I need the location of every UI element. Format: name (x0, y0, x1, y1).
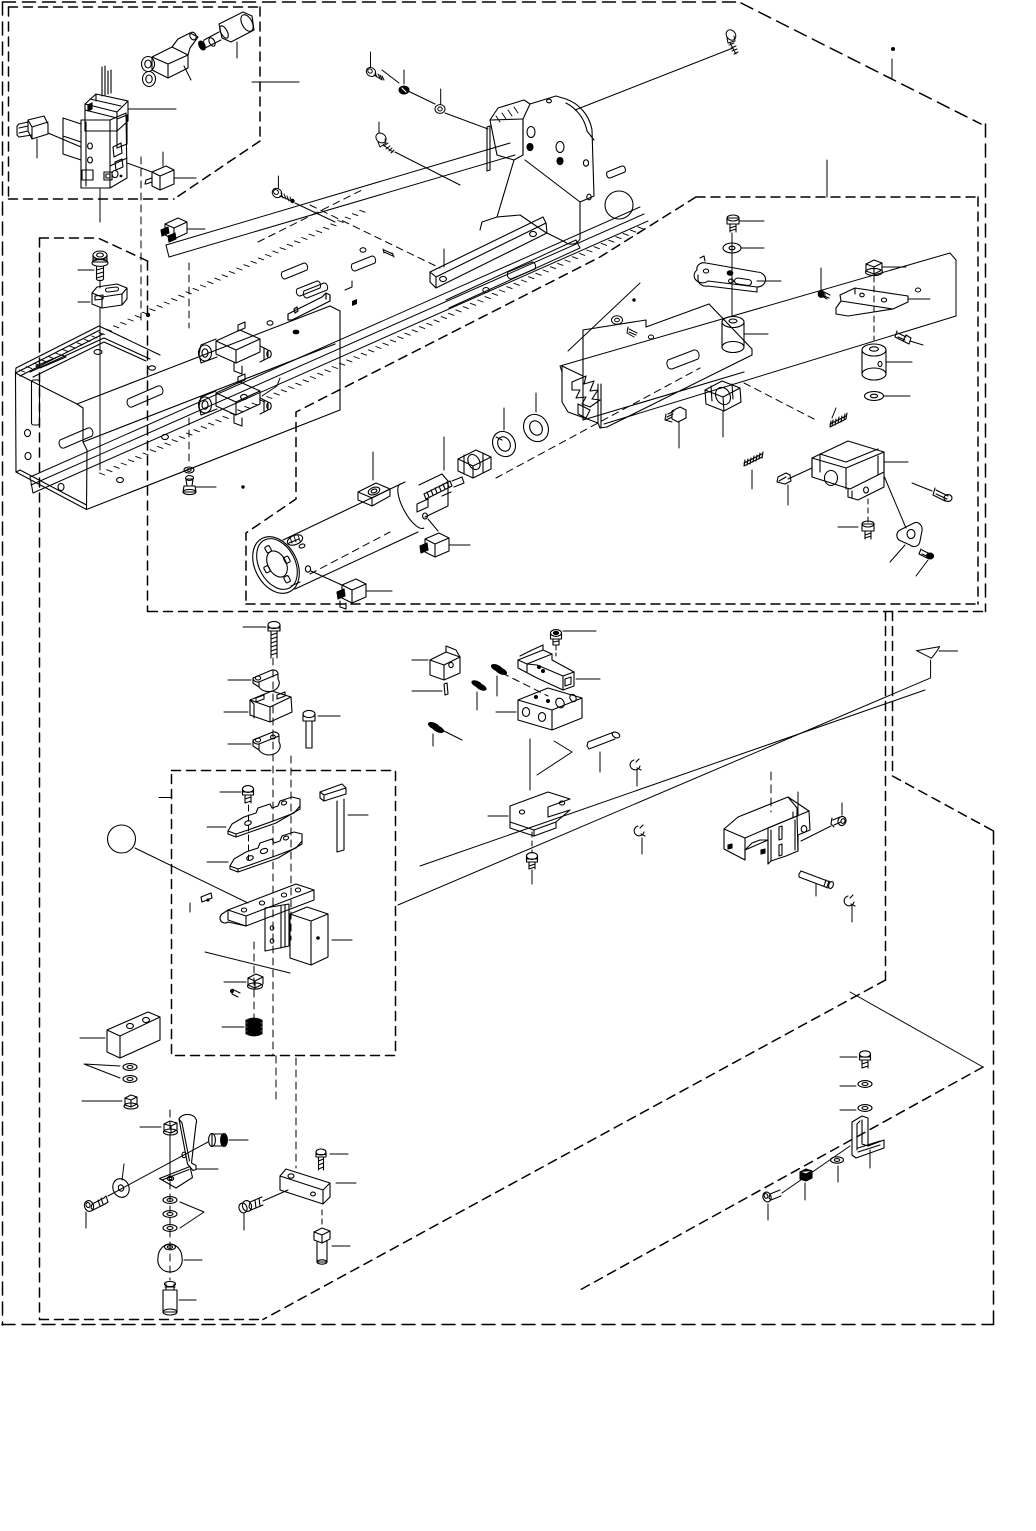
base arm hole 2 (259, 901, 264, 905)
nut bore (465, 452, 482, 471)
washer far right (612, 316, 623, 324)
rail step notch (345, 281, 352, 290)
big nut leader (722, 411, 724, 437)
spacer bottom ellipse (722, 342, 744, 353)
br washer 1 inner (862, 1083, 868, 1086)
base arm hole 4 (295, 888, 300, 892)
br screw 2 head (762, 1191, 773, 1203)
egg knob top hole inner (167, 1246, 172, 1249)
holder lower leader (205, 952, 290, 973)
second bar end (576, 240, 580, 248)
upper rail slot b (303, 283, 327, 298)
elbow fitting left (28, 116, 48, 139)
channel right end (709, 304, 752, 355)
screw right head inner (840, 818, 845, 824)
far right screw leader (912, 483, 932, 491)
long screw shaft (271, 631, 277, 658)
second bar slot (507, 262, 535, 279)
right bracket dark square b (761, 849, 765, 854)
box3 leader tick (826, 160, 828, 197)
bolt below leader (332, 1245, 350, 1247)
guide pin leader (599, 752, 601, 772)
manifold valve 2 port cylinder (199, 391, 217, 415)
br L-bracket leader (869, 1150, 871, 1168)
washer far right inner (615, 318, 620, 322)
leader fitting lower (366, 590, 392, 592)
small bolt shaft (245, 795, 251, 803)
black spring c1 (490, 662, 508, 676)
box4 leader tick (159, 797, 172, 799)
body top face hole a (94, 350, 102, 355)
small screw mid (777, 473, 786, 484)
box1 leader tick (252, 81, 299, 83)
br screw head (860, 1051, 871, 1057)
cylinder top small port (286, 533, 304, 548)
screw TR side (727, 36, 735, 43)
box1 top edge (9, 6, 261, 8)
silencer leader (236, 42, 238, 58)
plate right edge (950, 253, 956, 316)
upper rail slot a (281, 263, 307, 279)
link 2 thickness (253, 736, 280, 755)
right nut flange (866, 268, 883, 275)
washer s2 inner (167, 1213, 173, 1216)
rail fitting dark screw bottom (168, 233, 176, 242)
leader bracket box left (788, 468, 812, 479)
screw B leader (378, 122, 380, 133)
holder support hole a (270, 926, 274, 930)
angled screw leader (910, 341, 923, 345)
e-clip left leader (641, 838, 643, 854)
set screw fitting (672, 407, 686, 422)
thin strip plate mid (288, 293, 330, 320)
flag tail line (939, 650, 958, 652)
box1 corner diagonal (174, 141, 260, 199)
body hole 1 (25, 429, 31, 436)
link plate dark hole (727, 271, 733, 275)
bracket box inner wall (820, 449, 878, 475)
strip plate screw (294, 307, 298, 313)
cylinder port oval inner (371, 488, 378, 493)
boundary vertical x892 (892, 612, 894, 777)
small block tab (446, 646, 460, 657)
link 1 leader (228, 679, 251, 681)
cylinder port block (358, 483, 390, 506)
fitting left head (241, 1199, 253, 1212)
link plate left pin (700, 256, 705, 261)
roller top ellipse (862, 344, 886, 356)
body top edge hatching (19, 210, 365, 372)
long screw leader (243, 626, 266, 628)
fitting left leader (243, 1214, 245, 1230)
bottom bar block (280, 1169, 330, 1204)
tiny pin on rail (383, 249, 394, 257)
clamp plate screw dot 2 (541, 669, 545, 673)
screw above bar shaft (319, 1157, 324, 1170)
washer A2 inner (438, 107, 442, 111)
pivot arm slot (182, 1152, 186, 1158)
body front-right band inner edge (83, 344, 335, 442)
cylinder body bottom edge (295, 532, 418, 589)
manifold leader curve (262, 378, 280, 396)
boundary diagonal to lower right corner (893, 776, 994, 831)
manifold valve 1 bottom stub (234, 363, 242, 374)
lower cylinder leader (179, 1299, 196, 1301)
block leader (224, 711, 248, 713)
valve port small (115, 159, 123, 170)
spacer top bore (729, 319, 737, 323)
valve pins (102, 66, 111, 96)
knife plate 2 hole a (246, 855, 254, 861)
channel front bottom edge (583, 355, 752, 427)
egg knob (158, 1244, 182, 1272)
small screw mid leader (787, 485, 789, 505)
small dot mid right (632, 298, 635, 301)
angled screw head (903, 335, 911, 344)
upper rail bottom edge (169, 155, 515, 257)
bracket hole 5 (583, 160, 588, 166)
screw B head (374, 131, 388, 145)
column bolt head (93, 251, 107, 259)
screw right of bracket (831, 817, 841, 827)
washer w2 inner (127, 1078, 133, 1081)
washer A2 leader (440, 89, 442, 104)
base arm hole 3 (281, 893, 286, 897)
guide rod leader (348, 814, 368, 816)
black oval below strip (293, 330, 300, 335)
small bolt side (243, 789, 254, 795)
feed block hole 2 (569, 693, 578, 703)
leader from elbow cluster (184, 66, 191, 80)
spring c3 wire (442, 730, 462, 740)
axis diagonal near slide bar (310, 205, 440, 268)
bracket box flange (848, 472, 884, 500)
feed block leader left (496, 711, 516, 713)
channel back top edge (583, 304, 709, 376)
axis fitting to bar (263, 1190, 288, 1201)
rail left tip (30, 477, 33, 493)
black spring outline (246, 1020, 262, 1034)
outer border left (2, 2, 4, 1325)
black spring box4 (246, 1018, 262, 1037)
bracket box (pivot) (812, 441, 884, 489)
e-clip lower right (844, 895, 855, 906)
cylinder flange ellipse (248, 532, 305, 597)
double elbow top stub (172, 33, 198, 55)
washer s3 inner (167, 1227, 173, 1230)
small block leader (412, 659, 428, 661)
screw above dark center (553, 631, 558, 634)
rail bottom edge (33, 221, 648, 493)
feed block port left (522, 708, 529, 717)
bracket box top edges (812, 452, 884, 489)
column bolt collar (93, 255, 107, 262)
valve port square (113, 143, 122, 157)
fitting left rings (255, 1198, 260, 1208)
black dot on dashed line (146, 313, 150, 317)
axis manifold upper (188, 263, 190, 328)
upper rail left tip (166, 245, 169, 257)
balloon circle top-right (605, 191, 633, 219)
rail hole dot a (267, 321, 273, 325)
small bolt in box4 (243, 786, 254, 793)
leader screw chain top (382, 70, 488, 129)
inner top notch (40, 238, 148, 261)
solenoid valve body (81, 113, 127, 188)
spacer top ellipse (722, 317, 744, 328)
base arm (228, 884, 314, 926)
valve coil inner (85, 94, 121, 118)
screw lower-left head inner (85, 1202, 91, 1208)
spring right leader (832, 408, 836, 418)
br L-bracket inner U (857, 1120, 868, 1150)
second parallel leader (420, 690, 925, 866)
washer s3 (163, 1225, 177, 1232)
rod key flat (417, 499, 428, 512)
black spring leader (222, 1026, 244, 1028)
axis nut-spring box4 (253, 942, 255, 1018)
silencer neck (203, 32, 221, 48)
z-bracket plate (840, 288, 908, 309)
knife plate 1 hole a (244, 820, 252, 826)
z-bracket leader (908, 298, 930, 300)
knife plate 2 hole c (283, 835, 289, 840)
column bolt head inner (97, 253, 104, 257)
plate hole 2 (915, 288, 920, 292)
double elbow port ring 2 (143, 72, 156, 87)
knife axis dashed (248, 805, 250, 860)
leader vertical above rod (443, 437, 445, 470)
valve face hole 1 (88, 143, 93, 149)
small dot top right (891, 47, 895, 51)
grease fitting leader (196, 486, 216, 488)
plain washer (519, 410, 553, 446)
plate top edge (560, 253, 950, 366)
elongated block hole 2 (143, 1017, 150, 1022)
L-plate hole 1 (519, 810, 524, 814)
pivot arm leader (196, 1168, 218, 1170)
br axis line (782, 1146, 850, 1193)
pin bolt head side (303, 714, 315, 721)
bracket box side hole (825, 471, 838, 486)
small screw left of z (822, 291, 830, 299)
leader elbow to valve (48, 133, 81, 147)
body front-right long band top edge (77, 306, 330, 404)
pivot bolt shaft (865, 531, 871, 539)
knife plate 2 hole b (260, 848, 269, 855)
small block hole (449, 662, 453, 667)
clamp plate leader (576, 678, 600, 680)
holder block leader (332, 939, 352, 941)
lock washer (488, 427, 520, 460)
screw above clamp (551, 630, 562, 637)
holder block (290, 907, 328, 965)
box1 left edge (8, 7, 10, 199)
axis dash fragment lower (310, 532, 390, 574)
screw above bar (316, 1149, 326, 1155)
cylinder body top edge (283, 482, 405, 540)
small fitting below valve (152, 166, 174, 190)
link 2 hole (255, 738, 260, 742)
screw C thread (280, 193, 292, 202)
valve leader lines (100, 163, 152, 222)
bracket hole 1 (527, 127, 535, 138)
washer s1 inner (167, 1199, 173, 1202)
bushing ellipse dark (221, 1134, 228, 1147)
cylinder head cap (419, 474, 448, 517)
slide bar hole left (440, 276, 447, 281)
leader screw to bracket top (575, 48, 733, 110)
wedge solid diagonal (850, 992, 983, 1067)
cylinder port oval (367, 486, 381, 497)
cylinder flange bolt hole 1 (264, 545, 271, 553)
valve bottom bits (104, 172, 112, 180)
small dot mid left (241, 485, 244, 488)
right nut small (866, 260, 882, 274)
leader fitting right (449, 544, 470, 546)
second bar bottom edge (449, 248, 580, 308)
pin bolt leader (318, 715, 340, 717)
wedge dashed diagonal (580, 1067, 983, 1290)
long screw head side (268, 625, 280, 631)
screw lower-left (91, 1198, 105, 1210)
column bolt leader (78, 269, 94, 271)
slide bar outline (430, 217, 547, 288)
channel left face (562, 366, 607, 428)
silencer neck ring (208, 37, 217, 48)
silencer end ellipse (238, 13, 255, 34)
br washer 3 leader (837, 1166, 839, 1182)
cam screw (919, 549, 930, 558)
rail hole dot b (360, 248, 366, 252)
mid band bottom inner (246, 603, 978, 605)
box1 right edge (259, 7, 261, 141)
rail slot b (127, 386, 163, 407)
cylinder fitting lower stub (340, 601, 346, 609)
column bolt shaft (97, 266, 104, 281)
cam plate (897, 523, 922, 547)
box3 top edge (696, 196, 978, 198)
manifold valve 2 port rings (199, 397, 212, 413)
br L-bracket hatch (858, 1141, 880, 1152)
guide rod shaft (337, 799, 344, 852)
cylinder head ellipse arc (398, 484, 424, 529)
manifold valve 2 port inner (202, 401, 208, 409)
rail fitting body (165, 218, 187, 239)
cylinder flange bore (262, 547, 291, 580)
bolt below bar shaft (317, 1241, 327, 1262)
leader tick right of valve (128, 108, 176, 110)
screw lower-left head (83, 1199, 95, 1212)
bushing ellipse left (209, 1134, 216, 1147)
elongated block (107, 1012, 160, 1058)
clamp top plate (518, 650, 574, 690)
bracket box leader (884, 461, 908, 463)
column block slot front (95, 295, 103, 300)
double elbow port inner 1 (145, 60, 151, 68)
plate outline (558, 252, 958, 438)
pivot arm inner (179, 1119, 190, 1161)
holder support hole b (270, 939, 274, 943)
bottom bar hole right (311, 1192, 316, 1196)
wire block to L-plate (529, 739, 531, 790)
L-plate (510, 792, 570, 830)
body top corner clip (36, 355, 66, 368)
washer inner (729, 246, 735, 250)
set screw rings (665, 411, 674, 422)
screw B thread (383, 143, 394, 153)
manifold valve 2 bottom stub (234, 415, 242, 426)
right bracket U-notch (745, 840, 768, 850)
holder support plate strips (281, 905, 285, 948)
knife plate 2 leader (207, 861, 228, 863)
diagonal axis lower-left (108, 1142, 208, 1196)
pivot arm hole (167, 1176, 173, 1180)
bracket hole 3 (556, 142, 564, 153)
br nut (800, 1169, 812, 1181)
valve left steps (63, 118, 81, 160)
rail fitting leader (187, 228, 205, 230)
leader above plain washer (535, 393, 537, 412)
manifold washer inner (187, 469, 191, 472)
bracket box ear hole (864, 487, 869, 493)
small block with tab (430, 652, 460, 680)
right bracket right plate (768, 797, 798, 851)
black square right of strip (352, 299, 357, 306)
body band right end (330, 306, 340, 410)
screw C head (270, 186, 283, 199)
washer below roller (865, 392, 884, 401)
bottom bar leader (336, 1182, 356, 1184)
small pin dark dot (206, 898, 209, 901)
elbow left stubs (19, 122, 32, 137)
manifold valve 1 port rings (199, 345, 212, 361)
link plate (694, 263, 765, 287)
knife plate 1 hole b (281, 800, 287, 805)
small screw mid head (785, 473, 791, 484)
nut n2 flange (164, 1129, 178, 1135)
wire dogleg (537, 741, 572, 775)
clamp plate hole (565, 677, 571, 686)
spring c2 leader (476, 692, 478, 710)
valve bottom tab (82, 170, 93, 180)
black spring c3 (427, 720, 445, 734)
link plate thickness (698, 275, 757, 292)
right bracket slot 2 (779, 844, 782, 856)
screw C dark tip (290, 199, 294, 203)
screw top right head (724, 28, 738, 42)
plain washer inner (527, 419, 545, 438)
black spring c2 (470, 679, 487, 693)
pin rod rings (824, 880, 829, 887)
screw B head side (378, 139, 386, 147)
screw C leader (277, 176, 279, 188)
bolt top leader (739, 220, 764, 222)
right bracket leader top2 (797, 792, 799, 816)
link plate oblong (735, 278, 752, 286)
cylinder fitting right dark (420, 543, 428, 553)
fitting left head2 (238, 1202, 249, 1214)
manifold valve 2 right stub (260, 398, 268, 414)
screw below side (527, 856, 538, 862)
washer below leader (884, 395, 910, 397)
double elbow fitting upper (152, 47, 188, 78)
body hole 3 (58, 483, 64, 490)
plate oblong hole (667, 350, 699, 369)
screw below axis (531, 832, 533, 853)
cylinder flange outer rim (243, 529, 308, 602)
leader screw3 diagonal (295, 203, 335, 222)
